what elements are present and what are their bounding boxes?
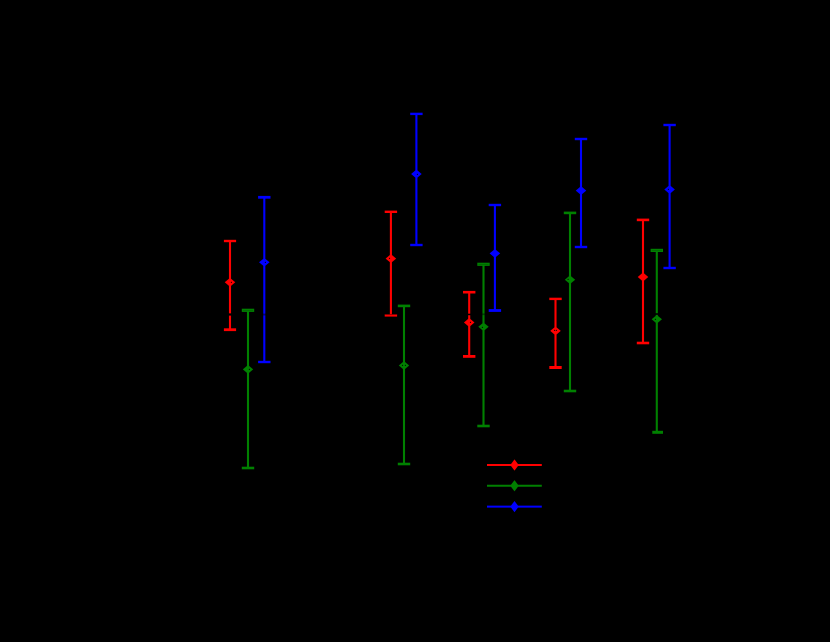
legend entry red <box>487 460 542 470</box>
errorbar red series point 4 <box>549 299 561 368</box>
errorbar blue series point 1 <box>258 197 270 362</box>
errorbar blue series point 3 <box>489 205 501 311</box>
errorbar green series point 2 <box>398 306 410 464</box>
errorbar red series point 5 <box>637 220 649 343</box>
errorbar green series point 4 <box>564 213 576 391</box>
errorbar blue series point 2 <box>410 114 422 245</box>
legend entry blue <box>487 502 542 512</box>
errorbar red series point 3 <box>463 292 475 356</box>
errorbar blue series point 4 <box>575 139 587 247</box>
errorbar red series point 1 <box>224 241 236 330</box>
errorbar red series point 2 <box>385 212 397 316</box>
errorbar green series point 3 <box>477 264 489 426</box>
legend entry green <box>487 481 542 491</box>
errorbar green series point 5 <box>651 250 663 432</box>
errorbar blue series point 5 <box>663 125 675 268</box>
errorbar green series point 1 <box>242 310 254 468</box>
